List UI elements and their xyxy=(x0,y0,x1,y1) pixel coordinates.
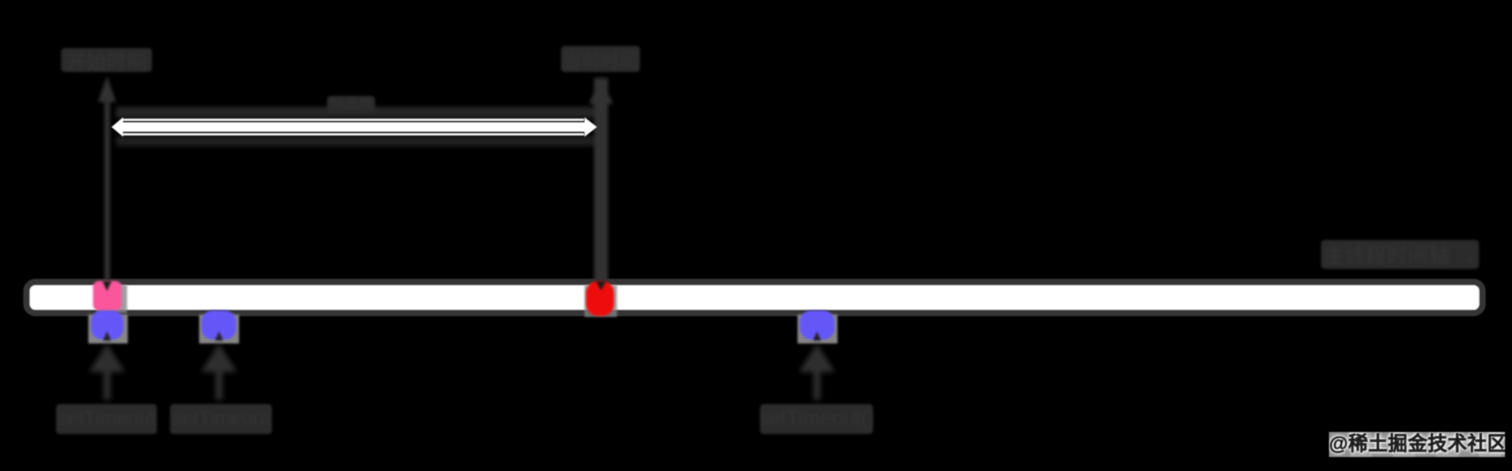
wire: up-arrow from bottom label 3 to blue marker 3 xyxy=(799,344,835,400)
marker: pink start marker on bar xyxy=(93,281,122,311)
node label "setTimeout" (bottom label 1) xyxy=(56,404,157,434)
arrowhead notch into blue marker 2 xyxy=(215,332,223,341)
node label "setTimeout" (bottom label 2) xyxy=(170,404,272,434)
wire: up-arrow from bottom label 2 to blue marker 2 xyxy=(201,344,237,400)
node label "开始时间" (top-left label blob) xyxy=(61,48,152,72)
marker: red current-time marker on bar xyxy=(586,281,614,316)
node label "主线程时间轴" (axis label right) xyxy=(1321,240,1479,269)
arrowhead notch into red marker xyxy=(596,281,606,291)
node label "setTimeout" (bottom label 3) xyxy=(760,404,873,434)
marker: blue task marker 2 below bar xyxy=(202,311,237,340)
shadow plate of blue marker 1 xyxy=(88,315,128,344)
arrowhead notch into blue marker 1 xyxy=(103,332,111,341)
watermark @稀土掘金技术社区 xyxy=(1329,432,1505,457)
wire: left connector from label1 down to pink marker xyxy=(98,76,116,288)
white double-headed span arrow xyxy=(112,117,598,136)
shadow plate of pink marker xyxy=(97,285,127,313)
node label "当前时间" (top-center label blob) xyxy=(561,46,640,72)
arrowhead notch into blue marker 3 xyxy=(813,332,821,341)
timeline bar (white rounded bar with dark border) xyxy=(27,282,1483,313)
wire: faint halo band above white arrow xyxy=(116,107,596,118)
shadow plate of blue marker 3 xyxy=(798,315,838,344)
arrowhead notch into pink marker xyxy=(103,281,112,291)
marker: blue task marker 1 below bar xyxy=(91,311,124,340)
shadow plate of blue marker 2 xyxy=(199,315,239,344)
shadow plate of red marker xyxy=(585,285,618,317)
node label "延迟值" (span label above double arrow) xyxy=(327,96,375,112)
marker: blue task marker 3 below bar xyxy=(800,311,835,340)
wire: right thick connector from label2 down to red marker xyxy=(589,76,613,288)
wire: faint halo band below white arrow xyxy=(116,136,596,146)
wire: up-arrow from bottom label 1 to blue marker 1 xyxy=(89,344,125,400)
